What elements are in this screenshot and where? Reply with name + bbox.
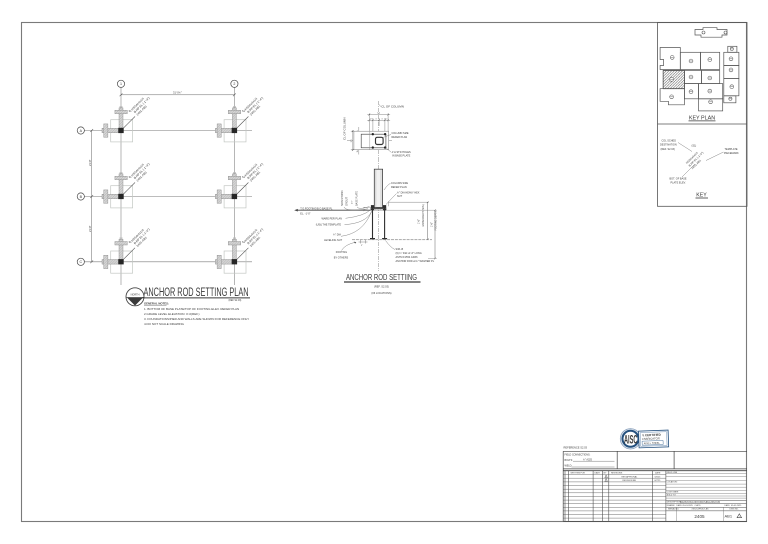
svg-text:NUT: NUT bbox=[397, 195, 403, 198]
svg-text:21'-8": 21'-8" bbox=[88, 159, 92, 166]
svg-text:GROUT: GROUT bbox=[346, 197, 349, 207]
svg-text:CL OF COLUMN: CL OF COLUMN bbox=[343, 117, 347, 140]
svg-text:1"ø STD HOLES: 1"ø STD HOLES bbox=[392, 151, 411, 154]
svg-text:WELD:: WELD: bbox=[565, 465, 573, 468]
svg-text:AISC • STEEL: AISC • STEEL bbox=[644, 442, 661, 446]
svg-text:(6) ¾" DIA x1'-6" LONG: (6) ¾" DIA x1'-6" LONG bbox=[396, 252, 422, 255]
svg-text:BOLTS:: BOLTS: bbox=[565, 459, 574, 462]
svg-text:ANCHOR ROD SETTIING: ANCHOR ROD SETTIING bbox=[346, 273, 417, 282]
svg-text:ASTM F1554 GR36: ASTM F1554 GR36 bbox=[396, 256, 419, 259]
svg-text:1½": 1½" bbox=[350, 200, 354, 204]
svg-text:ANCHOR ROD w/¾" WASHER PL: ANCHOR ROD w/¾" WASHER PL bbox=[396, 260, 435, 263]
svg-text:3. FOUNDATIONS/PIER AND WALLS: 3. FOUNDATIONS/PIER AND WALLS ARE SHOWN … bbox=[144, 317, 249, 321]
svg-text:T.O.FOOTING/B.O.BASE PL: T.O.FOOTING/B.O.BASE PL bbox=[300, 207, 333, 210]
svg-text:05-01-2025: 05-01-2025 bbox=[731, 505, 742, 507]
svg-text:REVISION BB: REVISION BB bbox=[623, 480, 637, 482]
svg-text:XXXX-SPRJCT-BS: XXXX-SPRJCT-BS bbox=[692, 509, 710, 511]
svg-text:IN BASE PLATE: IN BASE PLATE bbox=[392, 155, 411, 158]
svg-text:21'-8": 21'-8" bbox=[88, 225, 92, 232]
svg-text:DESTINATION: DESTINATION bbox=[660, 144, 677, 147]
svg-text:1'-0: 1'-0 bbox=[377, 113, 380, 115]
svg-text:REFER PLAN: REFER PLAN bbox=[391, 186, 407, 189]
svg-text:WRITTEN FOR: WRITTEN FOR bbox=[571, 472, 586, 474]
svg-text:5/6/25: 5/6/25 bbox=[655, 477, 662, 479]
svg-text:SOLD TO:: SOLD TO: bbox=[667, 495, 677, 497]
svg-text:DESCRIPTION: DESCRIPTION bbox=[667, 502, 681, 504]
svg-text:BY OTHERS: BY OTHERS bbox=[334, 256, 349, 259]
svg-text:COL SCHED: COL SCHED bbox=[662, 140, 677, 143]
svg-text:EL. -1'-0": EL. -1'-0" bbox=[300, 213, 310, 216]
svg-text:AISC: AISC bbox=[624, 434, 638, 446]
svg-text:FOOTING DEPTH: FOOTING DEPTH bbox=[435, 211, 438, 231]
svg-text:SERIAL NO.: SERIAL NO. bbox=[668, 508, 680, 511]
svg-text:EMBEDMENT (MIN.): EMBEDMENT (MIN.) bbox=[422, 204, 425, 227]
svg-text:COLUMN SIZE: COLUMN SIZE bbox=[392, 132, 409, 135]
svg-text:LOCATION:: LOCATION: bbox=[667, 481, 678, 484]
svg-text:3: 3 bbox=[382, 119, 383, 121]
svg-text:¾" A325: ¾" A325 bbox=[583, 458, 593, 461]
svg-text:BOT. OF BASE: BOT. OF BASE bbox=[670, 178, 687, 181]
svg-text:CUSTOMER:: CUSTOMER: bbox=[667, 492, 679, 494]
svg-text:LEVELING NUT: LEVELING NUT bbox=[324, 239, 343, 242]
svg-text:NON-SHRINK: NON-SHRINK bbox=[341, 190, 344, 206]
svg-text:1'-6": 1'-6" bbox=[430, 222, 433, 227]
svg-text:1: 1 bbox=[120, 82, 122, 86]
svg-text:(S1): (S1) bbox=[692, 145, 697, 148]
svg-text:1'-0: 1'-0 bbox=[351, 140, 353, 143]
svg-text:1'-6": 1'-6" bbox=[418, 219, 421, 224]
svg-text:CL OF COLUMN: CL OF COLUMN bbox=[381, 105, 404, 109]
svg-text:GENERAL NOTES:: GENERAL NOTES: bbox=[144, 302, 169, 306]
svg-text:2405: 2405 bbox=[694, 514, 705, 519]
svg-text:(06 LOCATIONS): (06 LOCATIONS) bbox=[371, 291, 391, 295]
svg-text:DATE: DATE bbox=[595, 471, 601, 474]
svg-text:WARE PER PLAN: WARE PER PLAN bbox=[322, 217, 343, 220]
svg-text:CHK'D: CHK'D bbox=[695, 505, 702, 507]
svg-text:(REF. S2.03): (REF. S2.03) bbox=[374, 285, 389, 289]
svg-text:(REF. S2.03): (REF. S2.03) bbox=[661, 148, 675, 151]
svg-text:1. BOTTOM OF BASE PLATE/TOP OF: 1. BOTTOM OF BASE PLATE/TOP OF FOOTING E… bbox=[144, 307, 239, 311]
svg-text:NORTH: NORTH bbox=[131, 293, 140, 296]
svg-text:BY: BY bbox=[604, 472, 607, 474]
svg-text:4.DO NOT SCALE DRAWING: 4.DO NOT SCALE DRAWING bbox=[144, 322, 185, 326]
svg-text:DATE: DATE bbox=[725, 504, 731, 507]
svg-text:DWG NO.: DWG NO. bbox=[730, 509, 739, 511]
svg-text:3": 3" bbox=[361, 245, 363, 247]
svg-text:6/7/25: 6/7/25 bbox=[655, 480, 662, 482]
svg-text:¾" DIA: ¾" DIA bbox=[333, 233, 341, 236]
svg-text:ANCHOR ROD SETTING PLAN: ANCHOR ROD SETTING PLAN bbox=[144, 285, 249, 299]
svg-text:C: C bbox=[79, 260, 82, 264]
svg-text:31'-0¾": 31'-0¾" bbox=[173, 91, 182, 95]
svg-text:SIM.-B: SIM.-B bbox=[396, 248, 404, 251]
svg-text:3: 3 bbox=[376, 119, 377, 121]
svg-text:PIECEMARK: PIECEMARK bbox=[724, 152, 739, 155]
svg-text:AB1: AB1 bbox=[725, 514, 733, 519]
svg-text:REFERENCE S2.03: REFERENCE S2.03 bbox=[564, 446, 588, 450]
svg-text:COLUMN SIZE: COLUMN SIZE bbox=[391, 182, 408, 185]
svg-text:2: 2 bbox=[233, 82, 235, 86]
svg-text:(US& THE TEMPLATE: (US& THE TEMPLATE bbox=[316, 223, 342, 226]
svg-text:TEMPLATE: TEMPLATE bbox=[725, 148, 738, 151]
svg-text:05-01-2025: 05-01-2025 bbox=[683, 505, 694, 507]
svg-text:DRAWN: DRAWN bbox=[667, 504, 675, 507]
svg-text:BASE PLATE: BASE PLATE bbox=[356, 191, 359, 206]
svg-text:(REF S2.03): (REF S2.03) bbox=[229, 300, 242, 302]
svg-text:REVISIONS: REVISIONS bbox=[611, 472, 623, 474]
svg-text:DATE: DATE bbox=[677, 504, 683, 507]
svg-text:¾" DIA HEAVY HEX: ¾" DIA HEAVY HEX bbox=[397, 191, 420, 194]
svg-text:2.GRADE LEVEL ELEVATION: 0'-0(: 2.GRADE LEVEL ELEVATION: 0'-0(REF.) bbox=[144, 312, 200, 316]
svg-text:FOOTING: FOOTING bbox=[336, 251, 347, 254]
svg-text:!: ! bbox=[739, 516, 740, 518]
svg-text:REFER PLAN: REFER PLAN bbox=[392, 136, 408, 139]
svg-text:PLATE ELEV.: PLATE ELEV. bbox=[671, 182, 687, 185]
svg-text:FIELD CONNECTIONS:: FIELD CONNECTIONS: bbox=[565, 454, 591, 457]
svg-text:DATE: DATE bbox=[655, 471, 661, 474]
svg-text:REV APPROVAL: REV APPROVAL bbox=[622, 476, 639, 479]
svg-text:FIELD USE: FIELD USE bbox=[667, 472, 678, 474]
svg-text:FABRICATOR: FABRICATOR bbox=[642, 436, 660, 441]
